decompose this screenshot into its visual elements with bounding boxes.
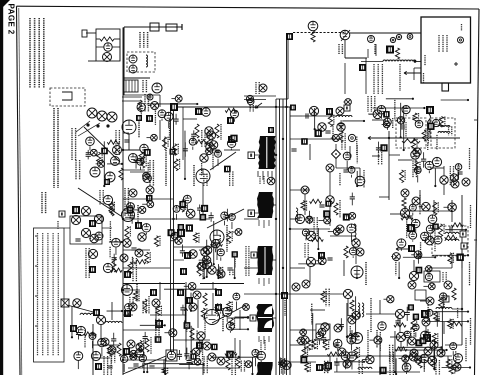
tube V3 [152,83,162,93]
wire [309,144,311,160]
callout 17 [426,106,434,114]
wire [129,356,130,358]
wire [272,204,276,206]
junction circle [451,180,459,188]
wire [400,248,402,250]
wire [123,267,170,269]
resistor [107,345,111,356]
junction dot [122,359,124,361]
vertical wire [92,324,94,375]
wire [458,172,460,179]
resistor [156,306,160,316]
junction circle [208,266,216,274]
label text [147,163,149,181]
wire [380,115,382,119]
label text [356,145,358,163]
tube circle [158,110,166,118]
power transformer T1 [124,80,138,92]
cap C18 [343,169,348,171]
junction circle [201,248,209,256]
junction circle [186,209,195,218]
capacitor [197,207,202,209]
wire [403,106,405,150]
label [338,44,340,54]
junction circle [324,217,331,224]
kine socket junction 3 [107,112,117,122]
label text [395,255,397,275]
tube circle [450,343,457,350]
wire [123,169,145,171]
AGC dashed box A [396,118,426,148]
label text [341,133,343,149]
label [442,272,444,282]
callout 39 [196,342,203,349]
wire [130,171,148,173]
junction dot [190,351,192,353]
wire [445,229,466,231]
value label [325,291,327,301]
wire stub [244,95,276,97]
value label [416,139,418,149]
wire [233,119,235,122]
wire [334,361,364,363]
wire [372,119,386,121]
value label [316,339,318,349]
wire [181,245,183,251]
value label [184,200,186,210]
junction circle [448,203,457,212]
pointer line [76,121,90,132]
resistor R20 [119,168,123,180]
wire [164,358,166,374]
callout square [179,201,186,208]
diagonal wire [212,305,246,323]
wire [336,358,338,363]
label 6AW8 [193,165,195,186]
label [212,150,214,170]
wire [123,329,160,331]
cap C40 [107,365,112,367]
resistor [312,339,316,349]
wire [417,175,419,182]
callout 56 [186,297,193,304]
junction dot [143,371,145,373]
wire [352,256,354,258]
diamond test point [332,150,341,159]
right margin label [470,318,472,345]
fuse F1 [103,53,112,62]
resistor R21 [138,100,142,112]
wire [461,256,463,268]
label 1123V [204,318,206,335]
terminal label [251,252,257,258]
label 3K [405,122,407,138]
value label [145,156,147,166]
terminal label [344,105,350,111]
junction dot [164,373,166,375]
junction dot [363,120,365,122]
wire [78,329,80,332]
right margin label [470,205,472,228]
junction circle [206,143,214,151]
wire [140,324,165,326]
resistor [193,233,197,243]
junction dot [172,218,174,220]
cap C35 [407,215,412,217]
junction circle [198,262,206,270]
label text [339,173,341,186]
resistor [422,130,426,141]
resistor R26 [215,124,219,138]
wire [345,361,347,369]
resistor [138,340,142,352]
wire [344,63,346,94]
tube circle [139,354,146,361]
tube circle [227,139,235,147]
diagonal wire [123,356,166,374]
junction dot [346,336,348,338]
wire [397,315,399,320]
wire [343,101,345,103]
resistor [434,311,438,321]
resistor R9 [311,31,315,42]
junction circle [259,84,267,92]
notes text block left [53,108,55,188]
junction circle [203,342,211,350]
resistor [449,365,453,374]
wire [164,332,169,334]
wire [193,130,195,134]
junction circle [462,178,470,186]
wire [403,256,435,258]
wire [417,250,419,255]
wire [196,265,198,267]
junction circle [146,186,154,194]
coil L6 [354,224,356,240]
junction circle [138,233,146,241]
junction circle [323,363,331,371]
pointer [254,212,259,214]
wire [163,359,165,372]
wire [428,318,430,321]
junction dot [163,371,165,373]
wire [424,241,426,242]
wire [457,363,459,369]
junction circle [343,289,352,298]
junction dot [196,103,198,105]
page edge black bar [0,0,3,375]
tube circle [412,219,420,227]
junction circle [412,197,420,205]
value label [328,339,330,349]
resistor [439,297,443,308]
callout 28 [407,224,415,232]
wire [145,233,147,235]
junction circle [409,352,418,361]
antenna plug J1 [150,23,159,31]
wire [350,32,421,34]
junction dot [122,149,124,151]
terminal label [248,210,255,217]
wire [107,163,122,165]
callout square [146,115,153,122]
junction circle [321,323,329,331]
resistor R70 [350,300,354,311]
label 6CG7 [136,284,138,302]
wire [316,260,319,262]
wire [150,314,186,316]
wire [379,300,381,314]
junction circle [203,256,211,264]
wire [404,208,406,211]
junction dot [398,277,400,279]
wire [302,115,336,117]
resistor R62 [143,299,147,312]
tube circle [426,225,434,233]
junction dot [275,154,277,156]
wire [142,363,144,368]
wire [394,331,396,372]
value label [167,137,169,147]
junction circle [383,121,390,128]
wire [216,244,218,260]
wire [215,249,217,252]
plug P1 [82,30,87,37]
wire [400,103,402,138]
tube circle [347,352,356,361]
value label [101,152,103,162]
resistor [201,308,205,319]
cap C30 [227,267,232,269]
label [435,360,437,375]
callout square [101,148,108,155]
terminal label [461,243,467,249]
label [231,352,233,375]
capacitor [177,353,182,355]
wire [101,348,103,357]
coil L10 [445,232,459,234]
value label [138,291,140,301]
callout square [178,224,184,230]
label text [229,171,231,186]
junction dot [388,137,390,139]
junction dot [356,185,358,187]
wire [159,282,161,300]
wire [340,318,342,324]
tube circle [217,249,224,256]
wire [314,108,316,129]
trap adjust label [245,246,247,276]
wire [290,344,305,346]
wire [235,301,237,309]
tube V7 6CG7 [122,209,135,222]
tube circle [74,352,83,361]
junction circle [197,332,205,340]
wire [413,359,415,361]
wire [424,268,425,270]
junction circle [333,228,340,235]
callout 50 [124,310,131,317]
coil right of bus [296,208,298,222]
label text [169,119,171,140]
callout 21 [195,108,202,115]
tube V9 [351,266,363,278]
junction dot [146,371,148,373]
capacitor [350,196,355,198]
junction circle [192,348,200,356]
callout 15 [359,64,366,71]
wire [200,340,202,352]
wire [192,147,194,150]
wire [422,240,427,242]
wire [175,114,177,119]
wire [143,352,145,372]
resistor [174,159,178,171]
callout 24 [268,127,274,133]
label right margin [465,338,467,362]
junction dot [164,324,166,326]
junction circle [130,350,137,357]
label text [378,148,380,165]
resistor [195,140,207,144]
label text [219,236,221,245]
junction circle [81,228,90,237]
junction circle [392,253,400,261]
label text [392,118,394,128]
wire [179,363,203,365]
squiggle wire [428,114,431,132]
junction dot [467,254,469,256]
junction circle [428,283,435,290]
wire [184,285,189,287]
label 6AU8 [365,262,367,285]
wire [96,163,98,165]
tube circle [257,351,266,360]
wire [331,137,333,139]
junction dot [423,107,425,109]
capacitor [435,318,440,320]
tube circle [333,339,342,348]
wire [442,366,470,368]
wire [335,144,337,150]
junction dot [122,289,124,291]
wire [343,260,345,276]
tube circle [415,120,423,128]
wire [391,256,393,258]
resistor R68 [226,358,230,370]
junction circle [301,336,309,344]
resistor [414,162,418,173]
label text [154,106,156,125]
label 20K [419,195,421,215]
wire [443,184,445,195]
junction circle [337,123,345,131]
wire [447,356,449,366]
tube circle [211,240,219,248]
wire [290,115,302,117]
value label [452,319,454,329]
junction circle [336,225,344,233]
label text [164,138,166,148]
wire [239,340,241,360]
value label [333,115,335,125]
voltage notes text [37,233,39,356]
tube circle [434,236,442,244]
value label [143,340,145,350]
wire [443,322,445,334]
label smoke [85,248,87,278]
junction dot [467,311,469,313]
wire [129,212,131,217]
callout square [190,353,196,359]
wire [138,358,140,361]
wire [359,168,361,177]
tube circle [377,106,386,115]
junction dot [217,277,219,279]
wire [290,218,300,220]
source rail wire [200,283,244,285]
wire [241,317,248,319]
callout square [415,339,422,346]
wire [452,308,462,310]
capacitor [186,359,191,361]
arrow [185,308,187,316]
antenna lead-in wire [124,26,182,28]
degaussing coil dashed box [50,88,85,106]
picture tube base tab [442,83,449,91]
wire [347,298,349,316]
tube circle [95,232,103,240]
cap C32 [319,204,324,206]
junction dot [434,256,436,258]
wire [89,237,91,239]
wire [123,132,129,134]
voltage notes box [34,228,65,362]
junction circle [175,237,182,244]
component row [122,96,142,98]
resistor [439,116,443,127]
sound takeoff coil L14 [358,303,360,317]
label text [427,129,429,145]
junction circle [348,316,356,324]
callout square [186,224,193,231]
wire [77,361,79,369]
junction dot [206,276,208,278]
wire [365,58,367,94]
junction dot [434,368,436,370]
solder dot [86,123,89,126]
tube circle [316,332,323,339]
capacitor [376,147,381,149]
coil L11 [445,239,459,241]
resistor R74 [395,347,407,351]
wire [432,224,434,231]
tube circle [432,119,439,126]
resistor [413,113,417,122]
wire [350,345,352,351]
tube circle [426,309,433,316]
wire [379,196,389,198]
label [99,190,101,205]
label FILAMENT [423,73,425,83]
coil L15 [358,367,372,369]
wire [93,357,110,359]
wire [280,358,282,363]
tuner dashed box [127,52,155,72]
label KINE 21ATP4 [438,35,440,52]
wire [182,119,184,160]
diagonal wire [84,127,120,162]
